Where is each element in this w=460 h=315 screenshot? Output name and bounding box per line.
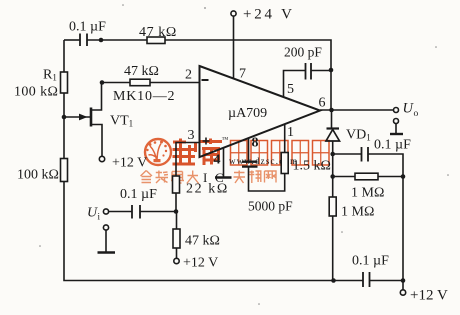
svg-text:µA709: µA709 — [228, 106, 267, 121]
svg-text:1 MΩ: 1 MΩ — [341, 205, 374, 220]
wire 200pF to vertical — [311, 70, 331, 72]
resistor 1M vertical — [329, 197, 336, 216]
capacitor 5000pF — [242, 162, 258, 167]
ground Ui — [98, 225, 116, 253]
svg-text:100 kΩ: 100 kΩ — [17, 168, 59, 183]
watermark outlined characters — [231, 141, 330, 166]
svg-text:0.1 µF: 0.1 µF — [120, 187, 157, 202]
wire node A vertical — [332, 154, 334, 197]
svg-text:+12 V: +12 V — [183, 256, 218, 271]
watermark logo circle — [145, 139, 171, 165]
wire left vertical bottom — [64, 182, 363, 281]
svg-text:0.1 µF: 0.1 µF — [69, 20, 106, 35]
wire Ui to cap — [109, 211, 132, 213]
node 1M junction right — [401, 174, 406, 179]
svg-text:47 kΩ: 47 kΩ — [185, 234, 220, 249]
svg-text:47 kΩ: 47 kΩ — [124, 64, 159, 79]
wire 5000pF loop — [249, 167, 285, 192]
svg-text:47 kΩ: 47 kΩ — [139, 25, 177, 40]
wire bottom right — [370, 280, 404, 282]
wire top rail to resistor — [87, 39, 147, 41]
node gate junction — [62, 115, 67, 120]
terminal Uo — [394, 101, 419, 120]
svg-text:8: 8 — [252, 136, 259, 151]
capacitor 200pF — [306, 63, 312, 80]
svg-text:2: 2 — [185, 68, 192, 83]
terminal +12V source — [99, 156, 147, 171]
wire to 0.1uF right — [333, 153, 362, 155]
wire pin8 — [248, 138, 250, 161]
node rail junction — [331, 278, 336, 283]
diode VD1 — [326, 110, 340, 154]
minus sign pin2 — [202, 79, 209, 81]
svg-text:™: ™ — [222, 136, 229, 144]
wire pin3 — [176, 143, 200, 177]
resistor 22k — [173, 176, 180, 193]
capacitor 0.1uF top-left — [80, 34, 87, 47]
wire top rail left — [64, 39, 80, 41]
wire pin5 riser — [284, 71, 306, 98]
svg-text:22 kΩ: 22 kΩ — [186, 182, 229, 197]
wire pin2 net — [102, 82, 200, 84]
capacitor 0.1uF bottom — [363, 272, 370, 287]
resistor 1M horizontal — [355, 173, 378, 180]
capacitor 0.1uF input — [132, 205, 140, 219]
node 200pF junction — [329, 68, 334, 73]
svg-text:0.1 µF: 0.1 µF — [374, 138, 411, 153]
wire 1M vertical to rail — [332, 216, 334, 281]
resistor 47k bottom — [173, 229, 180, 248]
wire output — [320, 109, 394, 111]
svg-text:+12 V: +12 V — [410, 288, 448, 304]
svg-text:+24 V: +24 V — [243, 7, 295, 23]
terminal +12V bottom — [174, 248, 218, 271]
svg-text:U: U — [87, 206, 98, 221]
capacitor 0.1uF right — [362, 147, 369, 162]
wire cap to junction — [140, 211, 176, 213]
ground pin4 — [215, 176, 232, 179]
node 1M junction left — [330, 174, 335, 179]
watermark bold characters — [173, 139, 223, 166]
svg-text:5: 5 — [287, 82, 294, 97]
resistor 100k lower — [61, 159, 68, 182]
node drain junction — [100, 80, 105, 85]
svg-text:1: 1 — [287, 125, 294, 140]
wire left vertical top — [63, 40, 65, 72]
svg-text:100 kΩ: 100 kΩ — [14, 85, 58, 100]
svg-text:1.5 kΩ: 1.5 kΩ — [293, 159, 331, 174]
resistor R1 100k — [61, 72, 68, 93]
terminal +12V right — [400, 281, 448, 304]
op-amp uA709 — [200, 66, 321, 157]
wire 22k to junction — [175, 193, 177, 212]
wire left vertical middle — [63, 93, 65, 159]
terminal Ui — [87, 206, 109, 222]
resistor 47k top — [147, 37, 165, 44]
node top-left junction — [99, 38, 104, 43]
svg-text:200 pF: 200 pF — [284, 45, 322, 60]
svg-text:0.1 µF: 0.1 µF — [352, 254, 389, 269]
wire drain riser — [91, 83, 102, 110]
svg-text:4: 4 — [214, 153, 221, 168]
node VD1 anode junction — [330, 152, 335, 157]
node input junction — [174, 209, 179, 214]
terminal +24V — [231, 7, 295, 23]
wire top rail right — [165, 40, 331, 110]
svg-text:MK10—2: MK10—2 — [113, 89, 175, 104]
node output junction — [329, 108, 334, 113]
wire pin4 — [223, 148, 225, 177]
resistor 47k input — [130, 79, 150, 86]
svg-text:6: 6 — [319, 96, 326, 111]
node bottom right junction — [401, 278, 406, 283]
svg-text:7: 7 — [239, 67, 246, 82]
svg-text:1 MΩ: 1 MΩ — [351, 186, 384, 201]
plus sign pin3 — [203, 138, 210, 145]
resistor 1.5k — [281, 153, 288, 174]
wire 1M horizontal right — [378, 176, 403, 178]
svg-text:o: o — [414, 109, 419, 119]
ground Uo — [390, 119, 403, 135]
wire +24V to pin7 — [233, 16, 235, 78]
svg-text:+12 V: +12 V — [112, 156, 147, 171]
wire 47k bottom — [176, 212, 178, 230]
svg-text:3: 3 — [188, 128, 195, 143]
transistor VT1 — [64, 108, 102, 157]
watermark small characters row — [141, 170, 277, 185]
wire pin1 — [284, 124, 286, 152]
wire 0.1uF right to vertical — [368, 154, 403, 280]
wire 1M horizontal left — [333, 176, 355, 178]
svg-text:5000 pF: 5000 pF — [248, 199, 293, 214]
